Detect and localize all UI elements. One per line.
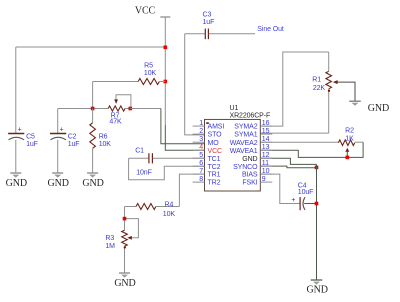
wire pin 10 BIAS down to C4 (260, 174, 299, 203)
svg-text:14: 14 (262, 136, 270, 143)
svg-text:C1: C1 (135, 147, 144, 154)
pin 4 VCC stub (193, 144, 222, 155)
svg-text:SYNCO: SYNCO (233, 164, 258, 171)
junction R7 right (129, 107, 133, 111)
svg-text:1uF: 1uF (26, 141, 38, 148)
svg-text:GND: GND (307, 285, 328, 296)
pin 8 TR2 stub (193, 176, 221, 187)
ground at R1 wiper (349, 101, 389, 114)
junction VCC/R5 (164, 80, 168, 84)
svg-text:13: 13 (262, 144, 270, 151)
svg-text:C2: C2 (68, 134, 77, 141)
svg-text:+: + (60, 126, 64, 133)
capacitor C4 (291, 182, 316, 210)
wire R7 right to pin 3 MO (130, 108, 161, 110)
wire pin 11 SYNCO to junction (260, 166, 316, 168)
pin 9 FSKI stub (242, 176, 272, 187)
wire C3 down to pin 2 STO (185, 34, 205, 135)
junction R2 wiper (346, 156, 350, 160)
svg-text:GND: GND (242, 156, 257, 163)
svg-text:R4: R4 (165, 201, 174, 208)
svg-text:AMSI: AMSI (208, 124, 225, 131)
wire R2 right lead down and along bottom to pin 13 WAVEA1 (260, 142, 363, 157)
svg-text:10nF: 10nF (136, 170, 152, 177)
svg-text:4: 4 (199, 144, 203, 151)
potentiometer R1 (312, 52, 331, 133)
wire R1 wiper to ground (333, 80, 355, 101)
svg-text:1uF: 1uF (203, 19, 215, 26)
svg-text:SYMA1: SYMA1 (234, 132, 257, 139)
svg-text:GND: GND (368, 103, 389, 114)
wire R1 bottom to pin 15 SYMA1 (260, 132, 328, 134)
op-amp-like IC U1 XR2206CP-F (205, 105, 271, 191)
svg-text:+: + (18, 126, 22, 133)
pin 14 WAVEA2 stub (230, 136, 273, 147)
svg-text:12: 12 (262, 152, 270, 159)
svg-text:10uF: 10uF (298, 189, 314, 196)
svg-text:TR2: TR2 (208, 180, 221, 187)
svg-text:Sine Out: Sine Out (257, 26, 284, 33)
ground under C5 (6, 173, 27, 189)
svg-text:TC2: TC2 (208, 164, 221, 171)
svg-text:R2: R2 (345, 128, 354, 135)
svg-text:BIAS: BIAS (242, 172, 258, 179)
potentiometer R2 (338, 128, 363, 158)
ground under C2 (48, 173, 69, 189)
svg-text:R5: R5 (144, 63, 153, 70)
pin 7 TR1 stub (193, 168, 221, 179)
pin 1 AMSI stub (193, 120, 225, 131)
svg-text:R1: R1 (312, 77, 321, 84)
junction C4 right lead (315, 202, 319, 206)
svg-text:C3: C3 (203, 12, 212, 19)
junction GND net (315, 166, 319, 170)
potentiometer R3 (105, 207, 138, 273)
ground under R3 (114, 273, 135, 289)
svg-text:C5: C5 (26, 134, 35, 141)
svg-text:GND: GND (48, 178, 69, 189)
pin 16 SYMA2 stub (234, 120, 272, 131)
svg-text:15: 15 (262, 128, 270, 135)
svg-text:3: 3 (199, 136, 203, 143)
wire ground rail down right side (316, 164, 318, 279)
svg-text:TR1: TR1 (208, 172, 221, 179)
pin 12 GND stub (242, 152, 272, 163)
svg-text:7: 7 (199, 168, 203, 175)
svg-text:10K: 10K (99, 141, 112, 148)
ground under R6 (82, 173, 103, 189)
potentiometer R7 (93, 95, 131, 126)
svg-text:TC1: TC1 (208, 156, 221, 163)
svg-text:VCC: VCC (135, 6, 156, 17)
pin 15 SYMA1 stub (234, 128, 272, 139)
svg-text:GND: GND (114, 278, 135, 289)
svg-text:5: 5 (199, 152, 203, 159)
resistor R4 (125, 201, 180, 218)
wire top horizontal VCC to C5 (16, 46, 166, 48)
ground bottom right (307, 280, 328, 296)
svg-text:16: 16 (262, 120, 270, 127)
pin 2 STO stub (193, 128, 223, 139)
pin 5 TC1 stub (193, 152, 221, 163)
svg-text:9: 9 (262, 176, 266, 183)
wire pin 12 GND net (260, 158, 316, 164)
wire R4 up to pin 7 TR1 (179, 174, 204, 206)
capacitor C2 (50, 126, 79, 148)
pin 6 TC2 stub (193, 160, 221, 171)
VCC power symbol (160, 17, 170, 125)
svg-text:STO: STO (208, 132, 223, 139)
svg-text:VCC: VCC (208, 148, 223, 155)
svg-text:1M: 1M (105, 243, 115, 250)
svg-text:11: 11 (262, 160, 269, 167)
junction R3 top / R4 (123, 217, 127, 221)
svg-text:1: 1 (199, 120, 203, 127)
pin 13 WAVEA1 stub (230, 144, 273, 155)
svg-text:8: 8 (199, 176, 203, 183)
wire R5 left down to R7 junction (92, 82, 94, 109)
pin 10 BIAS stub (242, 168, 272, 179)
svg-text:U1: U1 (230, 105, 239, 112)
svg-text:47K: 47K (109, 119, 122, 126)
svg-text:GND: GND (6, 178, 27, 189)
svg-text:WAVEA1: WAVEA1 (230, 148, 258, 155)
svg-text:1uF: 1uF (68, 141, 80, 148)
svg-text:1K: 1K (345, 136, 354, 143)
wire C5 top lead (15, 47, 17, 133)
svg-text:+: + (291, 197, 295, 204)
wire VCC rail lower to pin 4 (165, 125, 204, 150)
svg-text:10K: 10K (163, 211, 176, 218)
wire C2 top lead (57, 109, 59, 134)
resistor R5 (93, 63, 166, 85)
junction VCC/top wire (164, 46, 168, 50)
wire C5 to ground (15, 140, 17, 173)
svg-text:XR2206CP-F: XR2206CP-F (230, 112, 271, 119)
pin 3 MO stub (193, 136, 220, 147)
svg-text:R6: R6 (99, 134, 108, 141)
svg-text:GND: GND (82, 178, 103, 189)
svg-text:MO: MO (208, 140, 220, 147)
pin 11 SYNCO stub (233, 160, 272, 171)
wire C2 to ground (57, 140, 59, 173)
svg-text:WAVEA2: WAVEA2 (230, 140, 258, 147)
capacitor C1 (129, 147, 205, 176)
capacitor C3 (185, 12, 255, 40)
svg-text:R3: R3 (105, 235, 114, 242)
resistor R6 (90, 109, 111, 173)
wire pin 16 SYMA2 up and over to R1 top (260, 52, 328, 126)
svg-text:10K: 10K (144, 70, 157, 77)
svg-text:SYMA2: SYMA2 (234, 124, 257, 131)
wire C1 left loop to pin 6 TC2 (129, 158, 205, 180)
wire pin 14 WAVEA2 to R2 (260, 141, 338, 143)
capacitor C5 (8, 126, 38, 148)
svg-text:6: 6 (199, 160, 203, 167)
svg-text:10: 10 (262, 168, 270, 175)
wire R7-left junction to C2 (58, 108, 93, 110)
junction R7 left (91, 107, 95, 111)
svg-text:22K: 22K (313, 85, 326, 92)
svg-text:FSKI: FSKI (242, 180, 257, 187)
svg-text:2: 2 (199, 128, 203, 135)
